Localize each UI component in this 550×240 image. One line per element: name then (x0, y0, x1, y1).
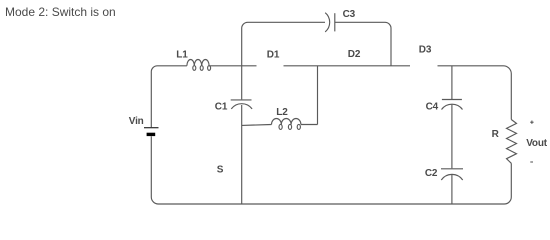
svg-text:Vout: Vout (526, 138, 548, 149)
svg-text:L1: L1 (176, 49, 188, 60)
inductor L2 loop 1 (279, 124, 282, 129)
svg-text:C3: C3 (343, 9, 356, 20)
inductor L1 loop 2 (200, 66, 203, 71)
wire: L2 to middle vertical (301, 124, 318, 126)
capacitor C4 straight plate (442, 99, 462, 101)
inductor L2 loop 3 (297, 124, 300, 129)
inductor L1 humps (187, 60, 209, 66)
label minus (530, 161, 533, 163)
svg-text:C4: C4 (426, 102, 439, 113)
wire: C3 loop left rail up and top wire to C3 (242, 22, 325, 66)
capacitor C3 curved plate (325, 13, 329, 32)
svg-text:D1: D1 (267, 49, 280, 60)
wire: C2 to bottom wire (451, 175, 453, 205)
wire: middle vertical from main wire down to L2 (317, 66, 319, 125)
capacitor C2 straight plate (441, 168, 463, 170)
wire: top-left loop, left rail upper part to battery (151, 66, 187, 127)
battery Vin negative plate (thick) (147, 133, 156, 136)
capacitor C1 curved plate (231, 104, 252, 109)
svg-text:Mode 2: Switch is on: Mode 2: Switch is on (5, 5, 116, 19)
label plus (530, 121, 533, 124)
wire: C4/C2 rail from main wire down to C4 (451, 66, 453, 99)
wire: switch rail from main wire down to C1 (241, 66, 243, 100)
wire: D1 to D3 (through D2) (284, 65, 411, 67)
svg-text:D2: D2 (348, 49, 361, 60)
wire: C1 node to L2 (242, 124, 272, 127)
wire: D3 right to top-right corner into right rail (438, 66, 512, 120)
svg-text:L2: L2 (276, 107, 288, 118)
capacitor C4 curved plate (442, 104, 463, 109)
capacitor C3 straight plate (334, 13, 336, 31)
wire: left rail lower part, bottom wire, right rail lower part (151, 136, 511, 204)
resistor R zigzag (507, 120, 517, 164)
inductor L1 loop 1 (193, 66, 196, 71)
svg-text:Vin: Vin (129, 116, 144, 127)
battery Vin positive plate (144, 127, 159, 129)
inductor L2 humps (272, 119, 301, 125)
svg-text:D3: D3 (419, 45, 432, 56)
capacitor C1 straight plate (231, 99, 252, 101)
svg-text:C2: C2 (425, 168, 438, 179)
wire: C3 to right corner down to D2-D3 wire (335, 22, 391, 66)
inductor L1 loop 3 (208, 66, 211, 71)
wire: L1 to D1 (209, 65, 256, 67)
wire: switch rail from C1 down to bottom wire (switch S closed) (241, 105, 243, 204)
svg-text:C1: C1 (215, 102, 228, 113)
capacitor C2 curved plate (441, 174, 462, 180)
svg-text:S: S (217, 164, 224, 175)
inductor L2 loop 2 (288, 124, 291, 129)
wire: C4 to C2 (451, 105, 453, 169)
svg-text:R: R (492, 129, 500, 140)
